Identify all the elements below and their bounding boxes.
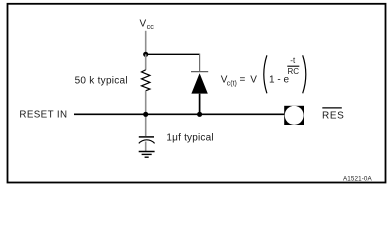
equation Vc(t) = V (1 - e^(-t/RC)) — [221, 55, 306, 93]
wire RESET IN net (horizontal) — [74, 113, 284, 115]
svg-text:1 - e: 1 - e — [269, 74, 289, 85]
node C junction dot (diode anode on RESET net) — [197, 112, 202, 117]
terminal pad RES (square with circle) — [284, 106, 304, 125]
node B junction dot (resistor/capacitor on RESET net) — [143, 112, 148, 117]
wire node A to resistor top — [145, 54, 147, 70]
svg-text:V: V — [140, 19, 147, 30]
svg-text:-t: -t — [290, 56, 296, 65]
svg-text:V: V — [250, 74, 257, 85]
wire capacitor to ground — [145, 142, 147, 152]
net Vcc label — [140, 19, 155, 32]
pin label RES (with overline) — [322, 108, 344, 122]
svg-text:A1521-0A: A1521-0A — [343, 175, 373, 182]
capacitor C1 curved bottom plate — [139, 140, 155, 144]
svg-text:RESET IN: RESET IN — [19, 110, 67, 121]
wire resistor bottom to node B / capacitor — [145, 91, 147, 136]
svg-text:50 k typical: 50 k typical — [75, 75, 128, 86]
svg-text:c(t): c(t) — [227, 80, 237, 87]
capacitor C1 top plate — [139, 136, 154, 138]
svg-text:RES: RES — [322, 110, 344, 121]
svg-text:cc: cc — [147, 22, 155, 31]
border frame — [8, 4, 386, 183]
diode D1 (triangle, anode at bottom) — [191, 73, 207, 93]
wire branch corner down to diode cathode — [199, 54, 201, 72]
node A junction dot (Vcc rail / resistor top / diode branch) — [143, 52, 148, 57]
resistor 50 k (zigzag body) — [142, 70, 150, 91]
diode D1 cathode bar — [191, 71, 208, 73]
ground symbol — [139, 152, 155, 158]
wire diode anode to node C — [199, 94, 201, 115]
svg-text:1μf typical: 1μf typical — [166, 132, 213, 143]
wire Vcc to node A — [145, 31, 147, 55]
wire node A to diode cathode branch (horizontal) — [146, 53, 200, 55]
svg-text:=: = — [240, 74, 246, 85]
svg-text:RC: RC — [288, 67, 300, 76]
